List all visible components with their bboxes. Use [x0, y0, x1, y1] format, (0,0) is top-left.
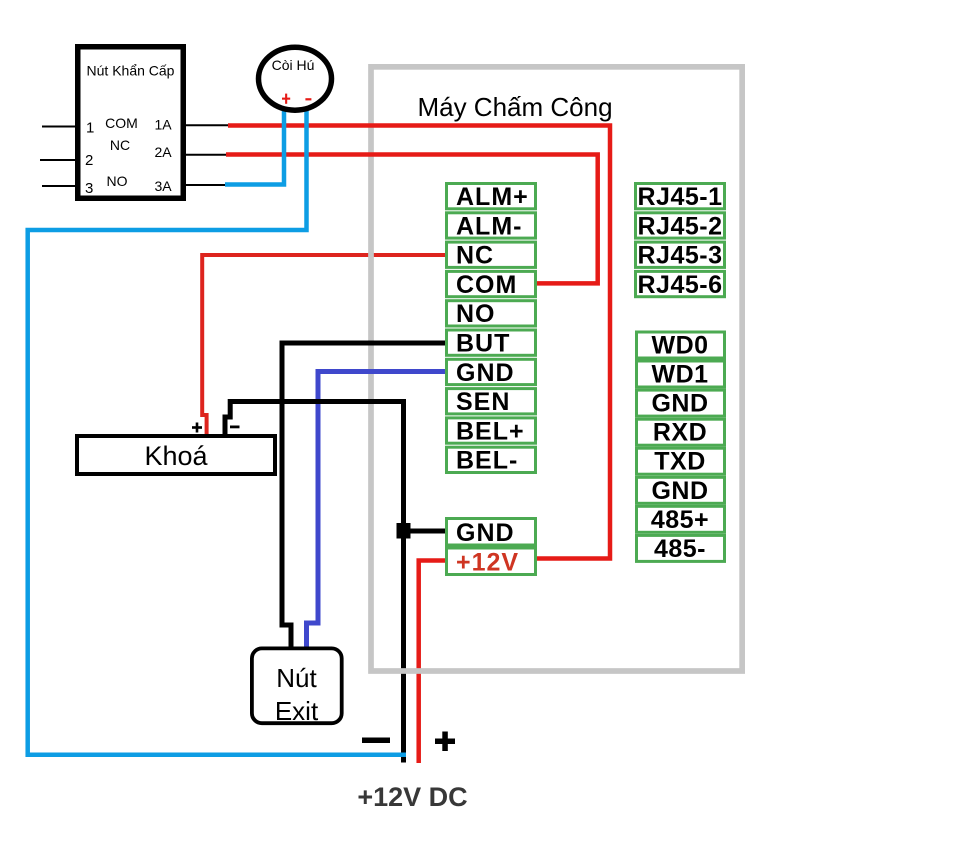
svg-text:COM: COM [456, 271, 517, 299]
svg-text:BEL-: BEL- [456, 447, 518, 475]
svg-text:BEL+: BEL+ [456, 417, 525, 445]
svg-text:+12V: +12V [456, 549, 519, 577]
svg-text:RJ45-6: RJ45-6 [638, 271, 723, 299]
svg-text:RXD: RXD [653, 419, 707, 447]
svg-text:3: 3 [85, 180, 93, 197]
svg-text:1: 1 [86, 120, 94, 137]
svg-text:GND: GND [456, 359, 515, 387]
svg-text:BUT: BUT [456, 330, 510, 358]
svg-text:NC: NC [456, 242, 494, 270]
svg-text:2A: 2A [155, 144, 173, 160]
svg-text:Khoá: Khoá [144, 441, 208, 471]
svg-text:NO: NO [107, 173, 128, 189]
svg-text:RJ45-1: RJ45-1 [638, 183, 723, 211]
svg-text:Còi Hú: Còi Hú [272, 57, 315, 73]
svg-text:ALM-: ALM- [456, 212, 522, 240]
svg-text:NO: NO [456, 300, 496, 328]
svg-text:SEN: SEN [456, 388, 510, 416]
svg-text:Exit: Exit [275, 696, 319, 726]
svg-text:3A: 3A [155, 178, 173, 194]
svg-text:Nút: Nút [276, 663, 317, 693]
svg-text:TXD: TXD [654, 448, 706, 476]
svg-text:GND: GND [651, 390, 708, 418]
svg-text:RJ45-2: RJ45-2 [638, 212, 723, 240]
svg-text:1A: 1A [155, 117, 173, 133]
svg-text:485-: 485- [654, 535, 706, 563]
svg-text:ALM+: ALM+ [456, 183, 529, 211]
svg-text:+12V DC: +12V DC [357, 782, 467, 812]
svg-text:2: 2 [85, 152, 93, 169]
svg-text:COM: COM [105, 115, 138, 131]
svg-text:NC: NC [110, 137, 130, 153]
svg-text:GND: GND [651, 477, 708, 505]
svg-text:RJ45-3: RJ45-3 [638, 242, 723, 270]
svg-text:WD0: WD0 [651, 332, 708, 360]
svg-text:Nút Khẩn Cấp: Nút Khẩn Cấp [87, 63, 175, 79]
svg-text:GND: GND [456, 519, 515, 547]
svg-text:WD1: WD1 [651, 361, 708, 389]
svg-text:Máy Chấm Công: Máy Chấm Công [417, 92, 612, 122]
svg-text:485+: 485+ [651, 506, 709, 534]
